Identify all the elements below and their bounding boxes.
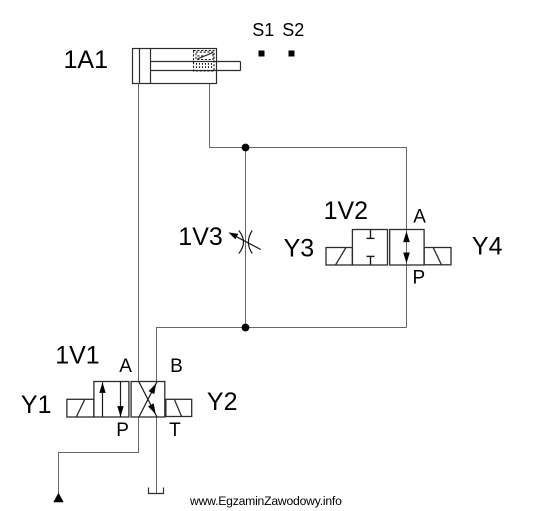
valve 1V1 right position box (crossed arrows): [131, 382, 165, 418]
solenoid Y2: [166, 399, 192, 416]
svg-text:S2: S2: [282, 20, 304, 40]
junction node: top: [242, 144, 250, 152]
sensor S2 mark: [289, 51, 295, 57]
valve 1V1 crossed arrow A to T: [139, 382, 157, 417]
solenoid Y1: [67, 399, 94, 417]
svg-text:B: B: [170, 356, 183, 377]
svg-text:Y3: Y3: [284, 235, 315, 263]
valve 1V2 double arrow up: [403, 231, 410, 242]
wire: valve 1V1 port P down-left to pressure source: [59, 417, 139, 493]
valve 1V2 blocked port symbols: [367, 230, 375, 265]
cylinder magnetic piston symbol (dashed): [194, 51, 215, 72]
svg-text:1V2: 1V2: [324, 197, 368, 225]
valve 1V1 left box arrow down (B to T): [120, 382, 122, 417]
svg-text:P: P: [413, 268, 426, 289]
svg-text:Y1: Y1: [21, 391, 52, 419]
valve 1V2 left position box (blocked): [352, 230, 387, 266]
wire: cylinder left port down to valve 1V1 port A: [138, 84, 140, 382]
valve 1V1 left box arrow up (P to A): [102, 382, 104, 417]
svg-text:1V3: 1V3: [178, 223, 222, 251]
svg-text:www.EgzaminZawodowy.info: www.EgzaminZawodowy.info: [189, 494, 342, 508]
wire: bottom horizontal to valve 1V1 port B: [157, 328, 407, 382]
svg-text:1A1: 1A1: [64, 46, 108, 74]
pressure source symbol (filled triangle): [53, 493, 63, 503]
svg-text:T: T: [169, 420, 181, 441]
svg-text:A: A: [413, 206, 426, 227]
svg-text:Y2: Y2: [207, 388, 238, 416]
tank / exhaust symbol: [149, 488, 164, 494]
svg-text:Y4: Y4: [472, 232, 503, 260]
svg-text:P: P: [116, 420, 129, 441]
wire: cylinder right port down and right to top junction: [210, 84, 246, 148]
junction node: bottom: [242, 324, 250, 332]
sensor S1 mark: [259, 51, 265, 57]
svg-text:1V1: 1V1: [55, 342, 99, 370]
cylinder 1A1 barrel: [133, 49, 241, 84]
valve 1V1 left position box (parallel arrows): [94, 382, 129, 418]
wire: top junction right and down through valve 1V2 to bottom level: [246, 148, 407, 328]
wire: middle vertical line through throttle 1V3: [245, 148, 247, 328]
throttle valve 1V3 adjustment arrow: [232, 234, 261, 249]
valve 1V1 crossed arrow P to B: [139, 382, 157, 417]
svg-text:A: A: [119, 356, 132, 377]
valve 1V2 right position box (flow): [390, 230, 424, 266]
solenoid Y4: [424, 248, 451, 265]
svg-text:S1: S1: [252, 20, 274, 40]
valve 1V2 double arrow down: [403, 253, 410, 264]
throttle valve 1V3 arcs: [239, 231, 252, 254]
solenoid Y3: [326, 248, 352, 266]
wire: valve 1V1 port T down to tank: [156, 417, 158, 493]
